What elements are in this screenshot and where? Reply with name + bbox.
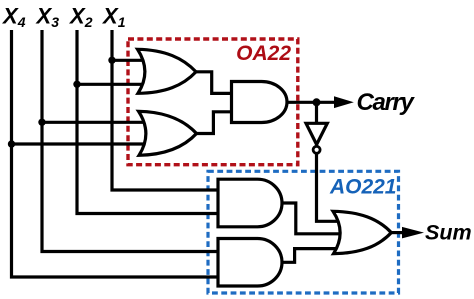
and-gate A2 (AO221): [218, 239, 282, 287]
wire X1 tap to OR1 input: [112, 59, 146, 62]
and-gate A1 (AO221): [218, 179, 282, 227]
arrow Sum: [402, 227, 424, 239]
dashed box OA22: [128, 39, 298, 165]
wire X2 vertical to AND A1: [77, 30, 219, 214]
svg-text:AO221: AO221: [329, 175, 397, 198]
junction dot Carry/inverter: [313, 98, 321, 106]
wire Carry net: [287, 101, 338, 104]
or-gate OR1 (OA22): [138, 49, 197, 93]
dashed box AO221: [208, 171, 399, 293]
junction dot X3/OR2: [38, 119, 45, 126]
wire X3 vertical to AND A2: [42, 30, 219, 252]
inverter U4 triangle: [306, 123, 327, 144]
svg-text:Carry: Carry: [357, 89, 416, 116]
wire inverter output to OR3: [317, 154, 342, 222]
inverter U4 bubble: [313, 146, 320, 153]
or-gate OR3 (AO221): [333, 211, 391, 253]
wire Sum net: [391, 231, 406, 234]
svg-text:OA22: OA22: [236, 42, 291, 65]
wire OR2 output to AND U3: [195, 112, 233, 134]
junction dot X4/OR2: [8, 140, 15, 147]
and-gate U3 (OA22): [232, 82, 287, 123]
wire X2 tap to OR1 input: [77, 83, 146, 86]
wire OR1 output to AND U3: [194, 72, 233, 94]
wire AND A1 output to OR3: [281, 203, 346, 234]
junction dot X2/OR1: [73, 81, 80, 88]
wire junction to inverter input: [315, 102, 318, 124]
wire AND A2 output to OR3: [281, 249, 342, 263]
junction dot X1/OR1: [108, 57, 115, 64]
wire X3 tap to OR2 input: [42, 121, 148, 124]
wire X4 tap to OR2 input: [12, 142, 149, 145]
wire X4 vertical to AND A2: [12, 30, 220, 277]
or-gate OR2 (OA22): [139, 111, 197, 155]
wire X1 vertical to AND A1: [112, 30, 219, 190]
arrow Carry: [334, 96, 354, 108]
svg-text:Sum: Sum: [425, 220, 472, 244]
